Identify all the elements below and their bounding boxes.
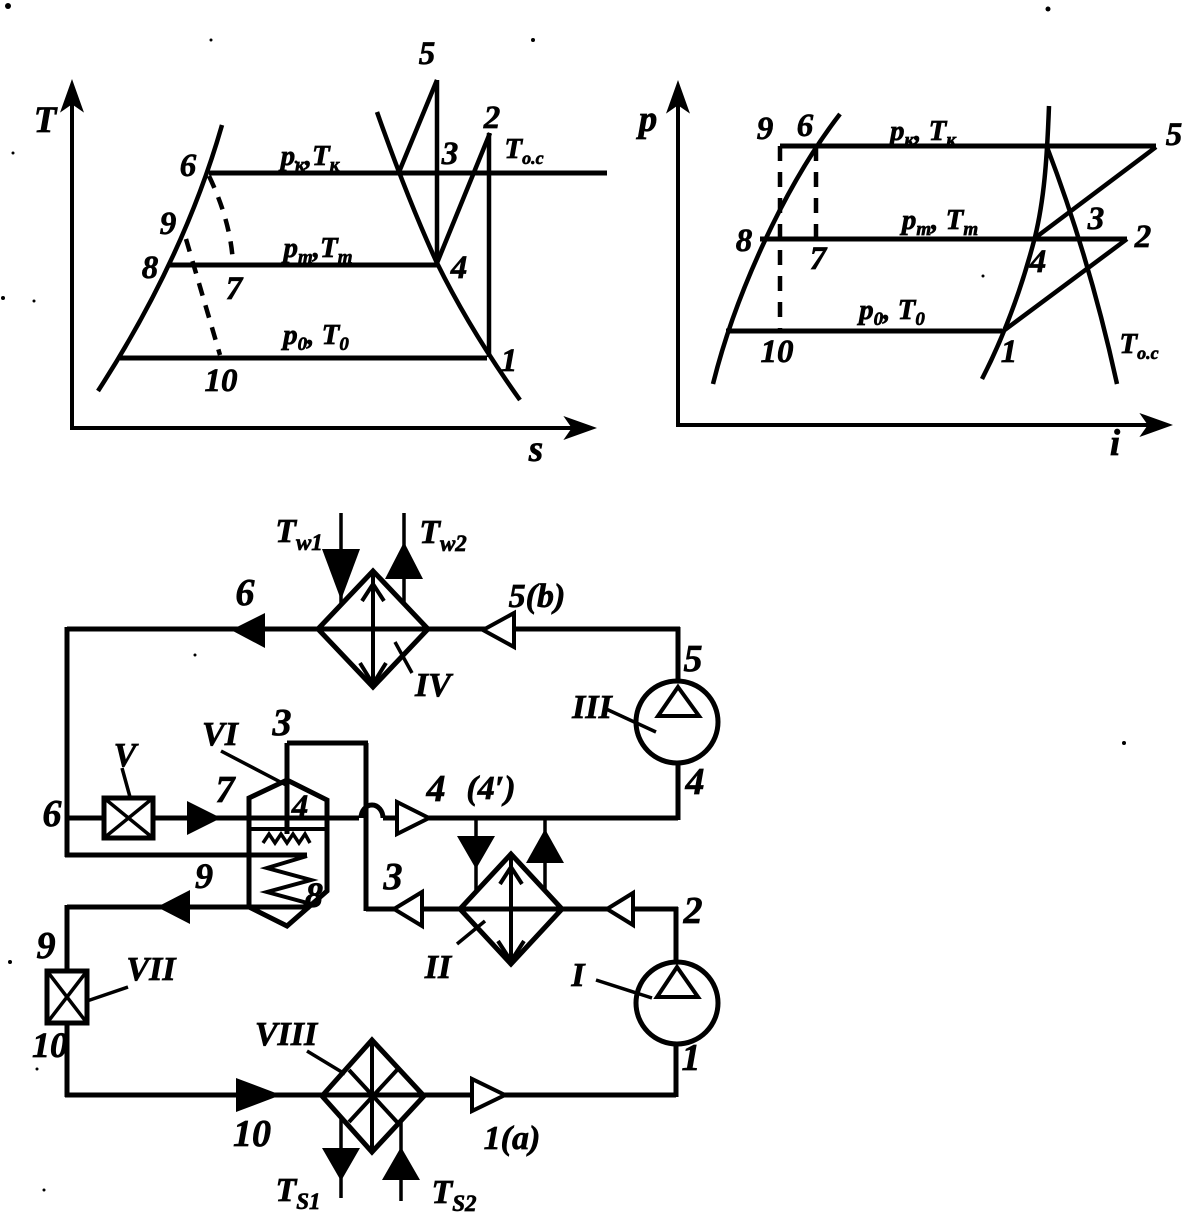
svg-text:3: 3 <box>272 702 292 744</box>
svg-text:VIII: VIII <box>255 1016 319 1053</box>
svg-text:8: 8 <box>736 223 753 259</box>
axis T (vertical) <box>62 82 82 430</box>
svg-text:(4′): (4′) <box>466 770 515 807</box>
valve VII (expansion valve) <box>47 971 87 1023</box>
svg-text:1(a): 1(a) <box>484 1120 541 1157</box>
coil inside VI <box>267 856 311 907</box>
svg-text:VII: VII <box>126 951 177 988</box>
compressor III <box>636 681 718 763</box>
svg-text:7: 7 <box>226 271 244 307</box>
wire coil outlet pipe 9 <box>67 905 310 910</box>
left saturation curve (liquid line through 8,9,6) <box>98 125 222 391</box>
svg-text:6: 6 <box>797 108 814 144</box>
line 5 to pk saturation point <box>399 80 437 172</box>
svg-text:10: 10 <box>32 1025 68 1065</box>
arrow 10 (filled, right) on bottom pipe <box>236 1078 281 1112</box>
svg-text:1: 1 <box>1001 334 1018 370</box>
pointer line V <box>122 768 130 797</box>
svg-text:2: 2 <box>1134 219 1152 255</box>
svg-text:6: 6 <box>43 793 62 835</box>
pointer line II <box>457 921 485 944</box>
arrow 4(4') (open, right) on valve pipe <box>397 802 429 834</box>
pointer line VIII <box>307 1051 345 1074</box>
svg-text:7: 7 <box>810 241 828 277</box>
svg-text:5: 5 <box>684 638 703 680</box>
svg-text:10: 10 <box>205 363 238 399</box>
wire left down pipe 6 <box>65 627 70 857</box>
wire pipe 3 horizontal <box>287 741 368 746</box>
Ts1 brine outlet line (down arrow) <box>322 1118 360 1198</box>
svg-text:II: II <box>424 949 453 986</box>
arrow 3 (open, left) on pipe 3 <box>394 892 422 926</box>
svg-text:6: 6 <box>180 148 197 184</box>
svg-text:9: 9 <box>195 856 213 896</box>
svg-text:4: 4 <box>426 768 446 810</box>
wire coil feed pipe (6 to coil) <box>65 853 307 858</box>
svg-text:1: 1 <box>501 343 518 379</box>
wire valve V pipe 6-7-4 <box>67 805 678 818</box>
valve V (expansion valve) <box>104 798 153 838</box>
right saturation curve (p-i, through 4 and 1) <box>982 106 1049 379</box>
isobar pk line (p-i) <box>780 144 1156 149</box>
svg-text:p0, T0: p0, T0 <box>856 294 925 330</box>
svg-text:III: III <box>571 689 613 726</box>
right saturation curve (vapor line through 4 and 1) <box>377 112 520 400</box>
svg-text:I: I <box>570 957 586 994</box>
arrow 9 (filled, left) on coil outlet <box>157 890 190 924</box>
svg-text:4: 4 <box>1029 244 1047 280</box>
svg-text:5: 5 <box>419 36 436 72</box>
dashed line 9-10 (p-i) <box>778 146 783 331</box>
svg-text:9: 9 <box>757 111 774 147</box>
axis p (vertical) <box>668 83 688 426</box>
svg-text:10: 10 <box>761 334 794 370</box>
heat exchanger II (intercooler) <box>460 854 562 964</box>
wire pipe 2-II-3 <box>366 907 678 912</box>
Tw2 water outlet line <box>385 513 423 604</box>
svg-text:5: 5 <box>1166 117 1183 153</box>
svg-text:4: 4 <box>685 761 705 803</box>
exchanger II outlet line (up arrow) <box>526 818 564 890</box>
compression line 4-5 (p-i) <box>1035 147 1156 238</box>
svg-text:T: T <box>34 100 58 141</box>
svg-text:VI: VI <box>202 716 240 753</box>
pointer line I <box>596 980 652 998</box>
wire top pipe 5-IV-6 <box>67 627 680 632</box>
pointer line VII <box>87 987 128 1001</box>
svg-text:s: s <box>528 429 543 470</box>
dashed throttling line 9-10 <box>186 239 220 355</box>
svg-text:p0, T0: p0, T0 <box>280 319 349 355</box>
heat exchanger VIII (evaporator) <box>322 1040 424 1152</box>
wire left pipe 9-VII-10 <box>65 905 70 973</box>
svg-text:8: 8 <box>305 875 323 915</box>
wire riser to compressor I <box>674 1044 679 1097</box>
isobar pm line (p-i) <box>760 237 1127 242</box>
dashed throttling line 6-7 <box>209 176 233 264</box>
svg-text:7: 7 <box>216 769 237 811</box>
svg-text:6: 6 <box>236 572 255 614</box>
svg-text:9: 9 <box>160 206 177 242</box>
compression line 1-2 (vertical) <box>487 133 492 357</box>
arrow 5(b) (open, left) on top pipe <box>483 613 514 647</box>
pointer line III <box>604 708 656 732</box>
bubbler hatch inside VI <box>263 834 310 843</box>
arrow 6 (filled, left) on top pipe <box>231 613 265 648</box>
svg-text:3: 3 <box>383 856 403 898</box>
svg-text:3: 3 <box>1087 201 1105 237</box>
dashed line 6-7 (p-i) <box>814 146 819 239</box>
intermediate vessel VI <box>249 780 327 926</box>
isobar pk,Tk line <box>209 171 607 176</box>
svg-text:IV: IV <box>414 667 453 704</box>
pointer line IV <box>395 642 412 673</box>
svg-text:2: 2 <box>683 890 703 932</box>
Tw1 water inlet line <box>322 513 360 605</box>
axis s (horizontal) <box>70 418 594 438</box>
isobar pm,Tm line <box>170 263 437 268</box>
compressor I <box>636 962 718 1044</box>
axis i (horizontal) <box>676 415 1170 435</box>
svg-text:8: 8 <box>142 250 159 286</box>
wire compressor I to pipe 2 <box>674 907 679 962</box>
svg-text:9: 9 <box>37 925 56 967</box>
line 4-2 <box>437 133 490 263</box>
arrow 2 (open, left) on pipe 2 <box>607 893 633 925</box>
heat exchanger IV (condenser) <box>318 571 428 687</box>
svg-text:3: 3 <box>441 136 459 172</box>
svg-text:2: 2 <box>483 100 501 136</box>
wire compressor III discharge pipe 5 <box>676 627 681 682</box>
svg-text:4: 4 <box>450 250 468 286</box>
wire compressor III suction pipe 4 <box>676 762 681 820</box>
wire bottom pipe 10-VIII-1 <box>65 1093 676 1098</box>
wire vessel center pipe <box>285 743 290 834</box>
arrow 7 (filled, right) on valve pipe <box>187 801 221 835</box>
svg-text:10: 10 <box>233 1113 271 1155</box>
svg-text:1: 1 <box>682 1037 701 1079</box>
svg-text:i: i <box>1110 423 1121 464</box>
svg-text:4: 4 <box>291 789 309 825</box>
To.c isotherm (p-i) <box>1047 147 1117 384</box>
svg-text:p: p <box>636 99 658 140</box>
isobar po line (p-i) <box>726 329 1002 334</box>
pointer line VI <box>221 751 288 786</box>
left saturation curve (p-i) <box>713 114 840 384</box>
arrow 1(a) (open, right) on bottom pipe <box>472 1079 505 1111</box>
wire riser pipe 3 <box>364 743 369 911</box>
svg-text:V: V <box>114 737 139 774</box>
svg-text:5(b): 5(b) <box>509 578 566 615</box>
compression line 4-5 (vertical) <box>435 80 440 263</box>
exchanger II inlet line (down arrow) <box>457 818 495 892</box>
Ts2 brine inlet line (up arrow) <box>382 1121 420 1201</box>
compression line 1-2 (p-i) <box>1002 239 1127 332</box>
isobar po,To line <box>120 356 487 361</box>
